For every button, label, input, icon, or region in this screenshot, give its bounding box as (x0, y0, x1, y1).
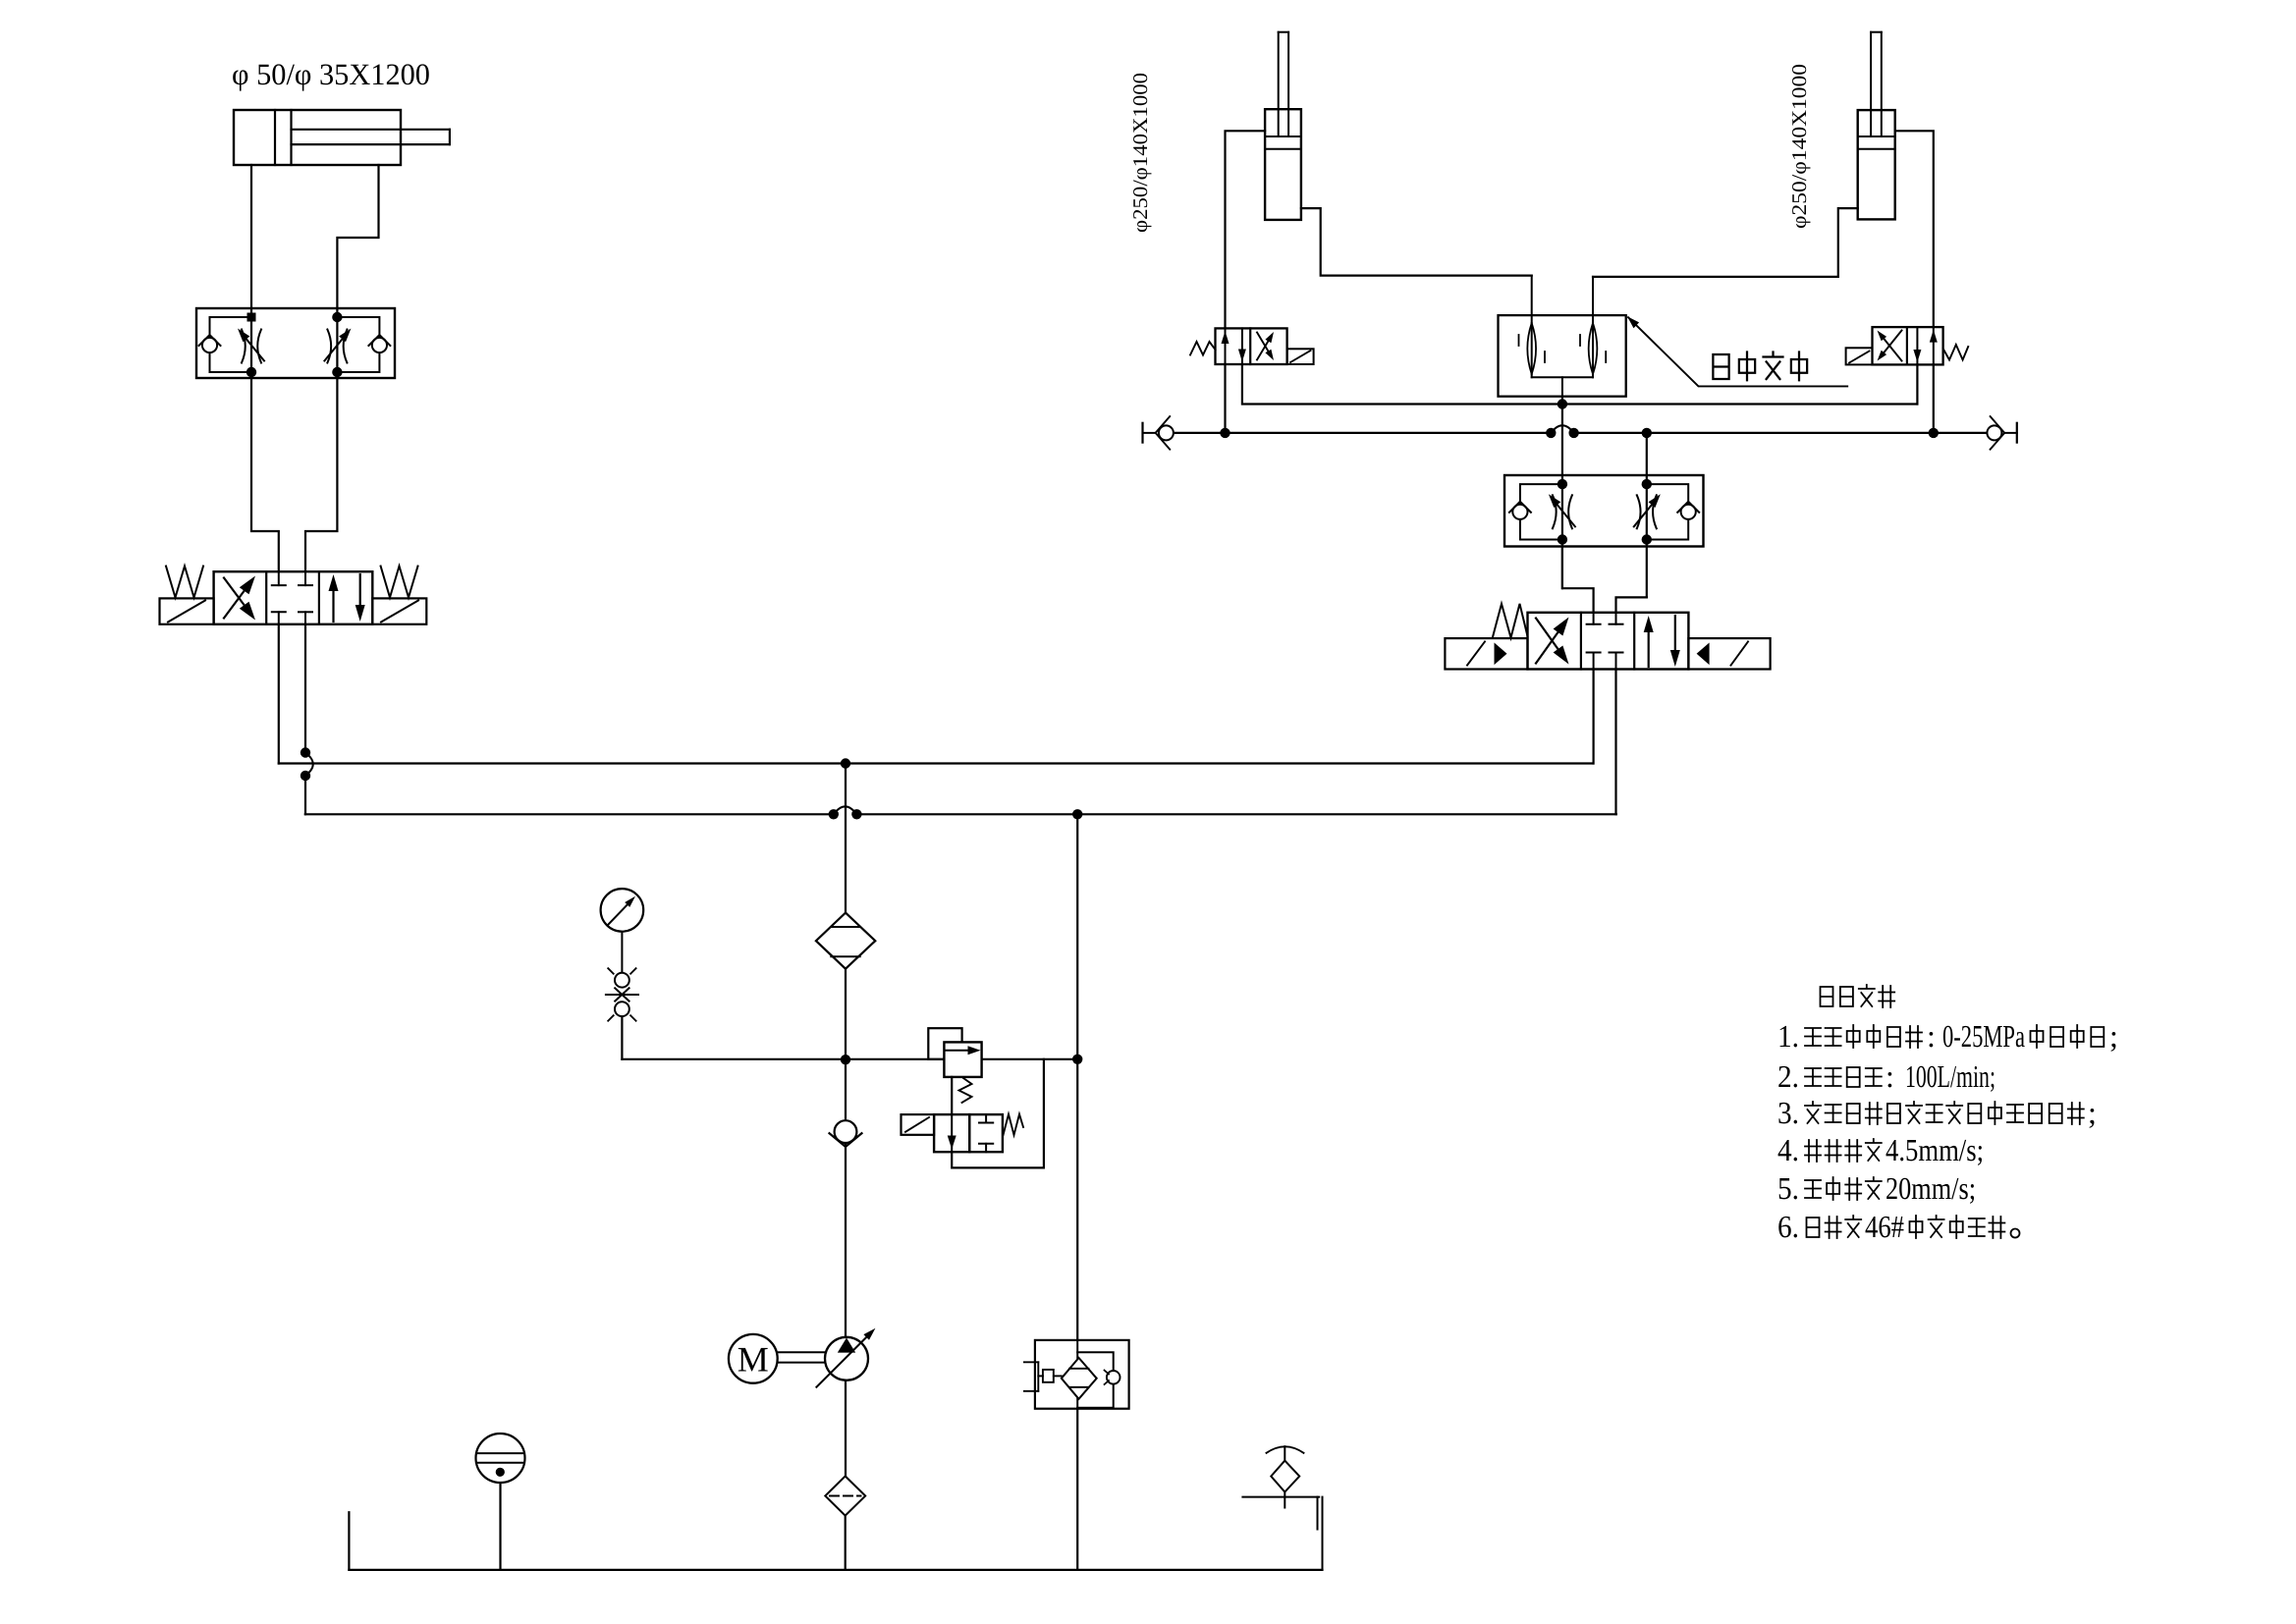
V2 right position parallel arrows (1648, 625, 1650, 667)
wire V3 to bus (1224, 364, 1226, 433)
throttle-check block B2 enclosure (1504, 475, 1704, 547)
svg-text:2.: 2. (1777, 1058, 1799, 1094)
wire B2 right to V2 port B (1616, 597, 1647, 612)
unloading valve UV1 body (934, 1114, 969, 1152)
check valve B2-right (1681, 505, 1696, 519)
node T-line / cooler branch (1072, 809, 1082, 819)
text 同步控制 (1713, 354, 1728, 379)
svg-text:φ 50/φ 35X1200: φ 50/φ 35X1200 (232, 57, 430, 91)
throttle valve B1-right (adjustable) (327, 330, 331, 363)
wire CY3 rod-side port (1895, 131, 1934, 327)
V3 left position arrows (1225, 328, 1227, 364)
wire RV1 to unloading valve UV1 (951, 1077, 953, 1114)
wire V2 port T down to T-line (1614, 670, 1616, 815)
throttle valve B2-right (1637, 495, 1641, 528)
wire B1 right check loop (337, 317, 379, 372)
throttle-check block B1 enclosure (196, 308, 395, 378)
svg-text:6.: 6. (1777, 1209, 1799, 1244)
wire B1 left to valve V1 port A (251, 378, 279, 571)
leader line 同步控制 (1628, 317, 1847, 386)
node B1 left bottom (246, 367, 256, 377)
FD1 left orifice (1527, 323, 1531, 374)
breather sub-tank surface (1242, 1496, 1319, 1498)
check valve B1-left (202, 338, 217, 352)
node relief outlet / cooler riser (1072, 1055, 1082, 1064)
wire B2 left check loop (1520, 484, 1562, 539)
hop arc bus over FD1 drop (1551, 425, 1573, 433)
wire T return line right part (856, 813, 1615, 815)
node T-line hop right (851, 809, 861, 819)
node B1 right top (332, 312, 342, 322)
wire B1 left check loop (210, 317, 252, 372)
cylinder CY1 piston rod (292, 129, 450, 131)
gauge isolator valve (621, 932, 623, 973)
wire V1 port P down (278, 624, 280, 764)
tank line left stub (348, 1512, 350, 1570)
pressure gauge PG1 (601, 889, 644, 932)
spring V4 right (1943, 345, 1969, 360)
node bus hop left (1546, 428, 1556, 438)
cylinder CY2 rod (1278, 32, 1280, 136)
FD1 internal collector (1532, 376, 1593, 378)
spring V3 left (1190, 342, 1216, 355)
sub-tank wall bracket (1317, 1497, 1319, 1530)
node bus hop right (1568, 428, 1578, 438)
wire V2 port P down to P-line (1592, 670, 1594, 764)
directional valve V3 4/2 body (1216, 328, 1287, 364)
svg-text:4.5mm/s;: 4.5mm/s; (1886, 1132, 1984, 1167)
FD1 left inlet (1531, 276, 1533, 378)
node gauge branch junction (841, 1055, 850, 1064)
wire CY1 head-side port jog (337, 165, 378, 308)
B1 right meter-out line (336, 308, 338, 378)
check valve B2-left (1512, 505, 1527, 519)
node B2 left bottom (1558, 534, 1567, 544)
B2 right line (1646, 433, 1648, 598)
oil cooler unit box (1035, 1340, 1129, 1409)
left bus coupling check (1141, 423, 1143, 443)
node hop upper (301, 747, 310, 757)
throttle valve B2-left (1553, 495, 1557, 528)
cylinder CY1 body (234, 110, 401, 165)
svg-text:φ250/φ140X1000: φ250/φ140X1000 (1787, 64, 1811, 229)
wire UV1 drain loop (952, 1059, 1044, 1168)
node T-line hop left (829, 809, 839, 819)
check valve B1-right (372, 338, 387, 352)
wire B2 left to V2 port A (1562, 547, 1594, 613)
wire CY3 head-side port to divider (1593, 208, 1858, 277)
relief valve RV1 main square (944, 1042, 981, 1077)
svg-text:5.: 5. (1777, 1170, 1799, 1206)
unloading valve UV1 solenoid (902, 1114, 935, 1135)
tank line (349, 1569, 1322, 1571)
spring V2 above-left (1493, 604, 1528, 638)
svg-text:1.: 1. (1777, 1018, 1799, 1054)
wire gauge drop (621, 1016, 623, 1059)
svg-text:φ250/φ140X1000: φ250/φ140X1000 (1128, 73, 1152, 233)
high pressure filter F1 (816, 913, 875, 969)
accumulator AC1 (499, 1482, 501, 1570)
svg-text:100L/min;: 100L/min; (1905, 1058, 1995, 1094)
check valve CV1 on pump riser (835, 1120, 857, 1143)
FD1 right orifice (1589, 323, 1593, 374)
variable displacement pump P1 (825, 1337, 868, 1380)
wire T return line left part (305, 813, 834, 815)
svg-text::: : (1886, 1058, 1894, 1094)
bus line right part (1574, 432, 1987, 434)
wire filter to pump (845, 969, 847, 1337)
V1 center position blocked ports (278, 571, 280, 585)
right bus coupling check (2016, 423, 2018, 443)
wire cooler riser (1076, 814, 1078, 1340)
wire P supply line (279, 762, 1594, 764)
node B1 right bottom (332, 367, 342, 377)
wire CY2 rod-side port (1226, 131, 1266, 328)
V4 left position crossed arrows (1882, 336, 1902, 361)
directional valve V2 4/3 body (1528, 613, 1689, 670)
solenoid V1 left (160, 598, 214, 623)
wire pump riser upper (845, 764, 847, 913)
svg-text:M: M (738, 1340, 769, 1380)
throttle valve B1-left (adjustable) (242, 330, 246, 363)
cylinder CY3 body (1858, 110, 1895, 219)
spring UV1 right (1004, 1114, 1024, 1135)
B1 left meter-out line (250, 308, 252, 378)
svg-text:;: ; (2088, 1095, 2097, 1130)
wire V4 to A-line (1916, 364, 1918, 404)
wire gauge branch horizontal (622, 1058, 944, 1060)
wire V3 to A-line (1242, 364, 1562, 405)
solenoid V2 left (1445, 638, 1527, 669)
wire B1 right to valve V1 port B (305, 378, 337, 571)
svg-text:46#: 46# (1865, 1209, 1904, 1244)
shaft motor-pump (778, 1351, 826, 1353)
hop arc T-line over pump riser (834, 806, 857, 814)
node FD1 output on A-line (1558, 399, 1567, 408)
svg-text:0-25MPa: 0-25MPa (1942, 1018, 2025, 1054)
V4 right position arrows (1916, 327, 1918, 364)
node bus / lower throttle branch (1642, 428, 1652, 438)
V2 center position blocked ports (1593, 613, 1595, 624)
wire V4 to bus (1933, 364, 1935, 433)
suction filter F2 (845, 1380, 847, 1477)
svg-text:3.: 3. (1777, 1095, 1799, 1130)
wire CY2 head-side port to divider (1301, 208, 1532, 276)
solenoid V3 (1287, 349, 1314, 364)
wire B2 right check loop (1647, 484, 1688, 539)
directional valve V1 4/3 body (214, 571, 373, 624)
FD1 right inlet (1592, 277, 1594, 377)
wire CY1 rod-side port to throttle block (250, 165, 252, 308)
directional valve V4 4/2 body (1873, 327, 1943, 364)
pilot box of relief valve RV1 (928, 1028, 961, 1059)
node B1 left top (square junction) (247, 313, 256, 322)
node V3 bus junction (1220, 428, 1230, 438)
svg-text:;: ; (2109, 1018, 2118, 1054)
V3 right position crossed arrows (1257, 338, 1271, 360)
spring RV1 (959, 1078, 972, 1103)
V1 left position crossed arrows (224, 585, 248, 619)
solenoid V2 right (1688, 638, 1770, 669)
node B2 left top (1558, 479, 1567, 489)
spring V1 left (166, 567, 203, 598)
solenoid V4 (1846, 348, 1873, 364)
svg-text:20mm/s;: 20mm/s; (1886, 1170, 1976, 1206)
hop arc T over P-line (305, 753, 313, 777)
text title 技术要求 (1821, 987, 1833, 1006)
cooler bypass relief stubs (1024, 1361, 1038, 1363)
motor M1 (729, 1334, 778, 1383)
air breather FB1 (1284, 1446, 1285, 1460)
spring V1 right (381, 567, 418, 598)
cylinder CY2 body (1265, 109, 1301, 220)
solenoid V1 right (372, 598, 426, 623)
cylinder CY3 rod (1870, 32, 1872, 136)
cooler filter diamond (1062, 1358, 1097, 1399)
wire V1 port T down with hop over P-line (304, 624, 306, 753)
flow divider FD1 (synchronising valve) box (1499, 315, 1626, 397)
svg-text:4.: 4. (1777, 1132, 1799, 1167)
node bus / V4 junction (1929, 428, 1939, 438)
node P-line / pump riser (841, 758, 850, 768)
node hop lower (301, 771, 310, 781)
node B2 right bottom (1642, 534, 1652, 544)
wire FD1 output through A-line to throttle block (1561, 397, 1563, 589)
cooler bypass check valve (1077, 1352, 1114, 1371)
wire A-line right part (1562, 403, 1918, 405)
bus line left part (1174, 432, 1551, 434)
svg-text::: : (1927, 1018, 1936, 1054)
V1 right position parallel arrows (332, 584, 334, 622)
V2 left position crossed arrows (1536, 626, 1562, 664)
node B2 right top (1642, 479, 1652, 489)
